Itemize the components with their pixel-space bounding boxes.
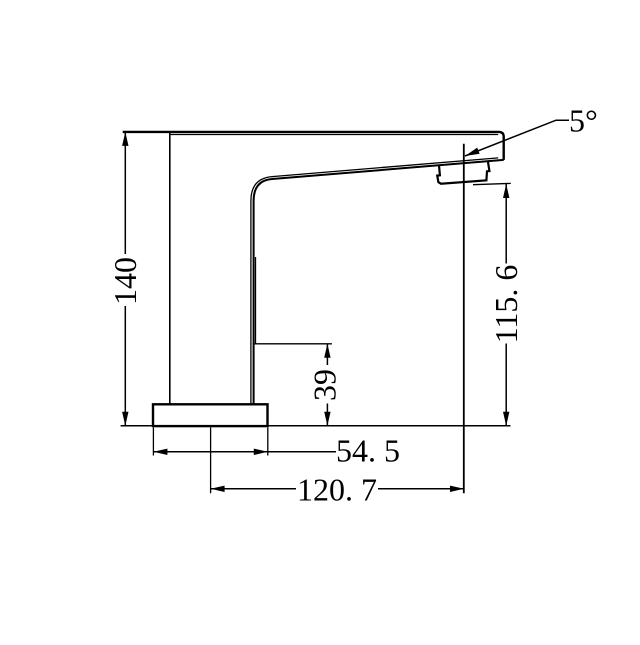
svg-text:5°: 5° [569,103,598,139]
svg-text:39: 39 [307,369,343,401]
dimension 39 line [326,344,328,426]
dimension 54.5 left arrow [153,449,167,455]
dimension 140 bottom arrow [122,412,128,426]
dimension 120.7 right arrow [450,486,464,492]
base flange [153,404,268,426]
svg-text:120. 7: 120. 7 [297,471,377,507]
aerator centerline [463,144,465,493]
dimension 115.6 line [505,184,507,426]
dimension 39 bottom arrow [324,412,330,426]
dimension 120.7 left arrow [211,486,225,492]
spout underside inner parallel line [251,158,498,404]
spout underside outline (5 degree slope) and inner column right edge [254,160,504,404]
dimension 115.6 top arrow [503,184,509,198]
dimension 54.5 left extension line [152,428,154,456]
dimension 115.6 top extension line [473,183,511,184]
5 degree leader arrowhead [465,148,480,156]
dimension 120.7 left extension line [210,428,212,494]
faucet body inner top line [171,134,499,136]
dimension 140 line [124,132,126,426]
faucet body top edge with 140 extension [123,132,504,160]
dimension 54.5 right arrow [254,449,268,455]
baseline (mounting surface) [121,425,511,427]
aerator outline [437,161,489,183]
dimension 115.6 bottom arrow [503,412,509,426]
spout seam line [255,257,257,344]
dimension 39 top extension line [253,343,332,345]
dimension 140 top arrow [122,132,128,146]
dimension 120.7 line [211,488,464,490]
dimension 54.5 right extension line [267,428,269,456]
svg-text:54. 5: 54. 5 [336,433,400,469]
svg-text:115. 6: 115. 6 [488,265,524,344]
faucet body left edge [169,133,171,404]
dimension 39 top arrow [324,344,330,358]
dimension 54.5 line [153,451,336,453]
svg-text:140: 140 [107,257,143,305]
5 degree leader line [465,120,569,156]
